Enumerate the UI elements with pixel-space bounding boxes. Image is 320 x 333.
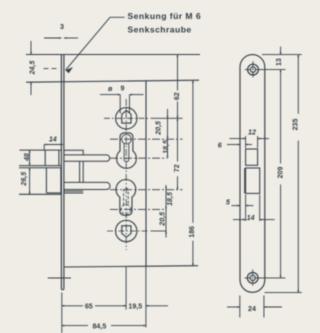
top reference line right view: [262, 54, 302, 56]
lock case top edge and 24,5 extension: [26, 80, 199, 82]
svg-text:186: 186: [188, 226, 196, 238]
svg-text:9: 9: [121, 85, 125, 93]
bottom extension line at plate: [61, 293, 63, 333]
dimension 3 (faceplate thickness): [44, 37, 78, 39]
bottom screw hole: [247, 273, 258, 284]
svg-text:20,5: 20,5: [154, 120, 162, 136]
faceplate edge view (double vertical line): [61, 55, 64, 290]
profile cylinder 2 inner outline (hidden): [121, 188, 131, 214]
lock case outline (side view): [145, 81, 147, 266]
svg-text:13: 13: [275, 58, 283, 66]
latch tail inside case: [64, 150, 83, 155]
spindle 2 horizontal centerline: [107, 230, 149, 232]
dimension 13: [280, 47, 282, 55]
profile cylinder 1 inner outline: [122, 134, 132, 161]
dimension chain 20,5 lower: [165, 209, 167, 237]
svg-text:12: 12: [248, 128, 256, 136]
faceplate top reference line: [26, 54, 200, 56]
svg-text:62: 62: [173, 92, 181, 100]
annotation text Senkung: [128, 11, 202, 35]
svg-text:48: 48: [23, 153, 31, 162]
spindle 1 centre extension tick: [151, 117, 183, 119]
spindle 2 centre extension tick: [151, 230, 167, 232]
cylinder 1 centre line / extension: [110, 138, 183, 140]
cylinder keyhole 1 (stem up, circle down): [117, 133, 137, 169]
svg-text:24,5: 24,5: [28, 60, 36, 76]
dimension 14 (deadbolt cutout): [233, 195, 275, 222]
dimension 62: [177, 55, 179, 119]
keyhole 2 circle centreline: [110, 189, 183, 191]
svg-text:14: 14: [49, 136, 57, 144]
cylinder 2 centre line: [110, 208, 167, 210]
dimension 84,5: [62, 325, 146, 327]
svg-text:Senkschraube: Senkschraube: [128, 25, 192, 35]
spindle hole 2 (circle with square): [116, 220, 137, 241]
dimension 19,5: [146, 305, 168, 307]
deadbolt cutout inner edge: [244, 168, 246, 193]
svg-text:3: 3: [60, 23, 64, 31]
svg-text:18,5: 18,5: [166, 191, 174, 206]
dimension 26,5: [29, 168, 31, 195]
svg-text:19,5: 19,5: [128, 303, 142, 311]
dimension 14 (latch width): [44, 145, 63, 150]
bottom reference line right view: [265, 292, 302, 294]
svg-text:24: 24: [248, 305, 256, 313]
top screw extension line: [261, 69, 286, 71]
svg-text:65: 65: [85, 303, 93, 311]
svg-text:14: 14: [247, 214, 255, 222]
keyhole 1 circle centreline: [110, 157, 167, 159]
spindle 1 horizontal centerline: [104, 117, 149, 119]
latch head (outside plate): [19, 150, 61, 165]
countersink centerline left view: [44, 68, 57, 70]
dimension chain 20,5 upper: [167, 109, 169, 139]
dimension 24 (plate width): [227, 296, 282, 318]
svg-text:18,5: 18,5: [162, 139, 170, 154]
dimension 6: [227, 144, 252, 146]
dimension 12: [230, 136, 270, 148]
fork web: [80, 161, 84, 182]
bottom extension line at case right: [145, 266, 147, 327]
dimension 18,5 lower: [165, 185, 167, 190]
dimension 48: [29, 150, 31, 166]
bottom screw centrelines: [245, 270, 262, 287]
dimension 24,5: [30, 41, 32, 95]
svg-text:84,5: 84,5: [92, 322, 106, 330]
face plate outline: [240, 55, 265, 293]
deadbolt tail lines inside case: [64, 191, 83, 193]
bottom screw extension line: [260, 277, 285, 279]
svg-text:20,5: 20,5: [159, 211, 167, 227]
dimension ø9: [100, 95, 144, 114]
latch bottom / deadbolt top double lines: [19, 166, 61, 168]
spindle hole 1 (circle with square): [116, 108, 137, 129]
svg-text:26,5: 26,5: [20, 171, 28, 187]
svg-text:72: 72: [173, 164, 181, 172]
top screw centrelines: [245, 61, 261, 78]
leader line to countersink: [66, 17, 125, 73]
lower fork prong: [64, 182, 110, 189]
svg-text:209: 209: [276, 167, 284, 179]
svg-text:235: 235: [292, 119, 300, 131]
dimension 72: [177, 118, 179, 189]
dimension 65: [62, 305, 126, 307]
cylinder keyhole 2 (circle up, stem down): [116, 180, 136, 216]
svg-text:ø: ø: [108, 85, 113, 93]
dimension 186: [192, 80, 194, 265]
top screw hole: [248, 64, 259, 75]
svg-text:Senkung für M 6: Senkung für M 6: [128, 11, 202, 21]
deadbolt cutout: [246, 168, 260, 193]
upper fork prong: [64, 155, 110, 161]
deadbolt head (outside plate): [19, 168, 61, 195]
dimension 209: [280, 70, 282, 278]
bottom screw centre mark left view: [48, 277, 71, 279]
latch cutout: [246, 149, 258, 165]
svg-text:5: 5: [226, 199, 231, 207]
dimension 18,5 upper: [167, 139, 169, 159]
dimension 235: [297, 55, 299, 293]
lock case bottom edge with 186 extension: [64, 266, 198, 267]
vertical centerline of holes: [125, 99, 127, 250]
svg-text:6: 6: [218, 142, 222, 150]
bottom extension line at hole axis: [125, 266, 127, 309]
dimension 5: [232, 205, 254, 207]
